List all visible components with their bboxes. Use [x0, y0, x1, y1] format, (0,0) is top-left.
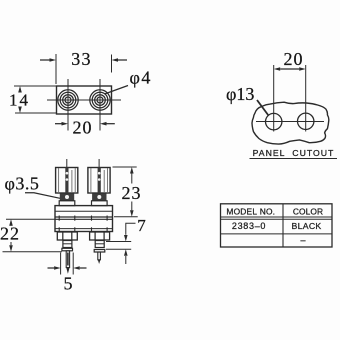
svg-text:23: 23 — [122, 183, 142, 203]
svg-text:COLOR: COLOR — [293, 206, 323, 216]
svg-text:7: 7 — [137, 216, 146, 235]
svg-text:20: 20 — [284, 49, 304, 69]
svg-text:2383–0: 2383–0 — [232, 221, 266, 231]
svg-text:φ4: φ4 — [130, 68, 152, 88]
svg-text:MODEL NO.: MODEL NO. — [226, 206, 275, 216]
svg-text:14: 14 — [9, 91, 30, 110]
svg-text:5: 5 — [64, 274, 73, 294]
svg-text:22: 22 — [0, 224, 20, 244]
svg-text:–: – — [300, 235, 305, 245]
svg-text:φ3.5: φ3.5 — [5, 174, 40, 194]
svg-text:33: 33 — [71, 49, 91, 69]
svg-text:20: 20 — [73, 118, 93, 138]
svg-text:φ13: φ13 — [226, 84, 254, 104]
svg-text:PANEL CUTOUT: PANEL CUTOUT — [253, 148, 335, 158]
svg-text:BLACK: BLACK — [292, 221, 322, 231]
